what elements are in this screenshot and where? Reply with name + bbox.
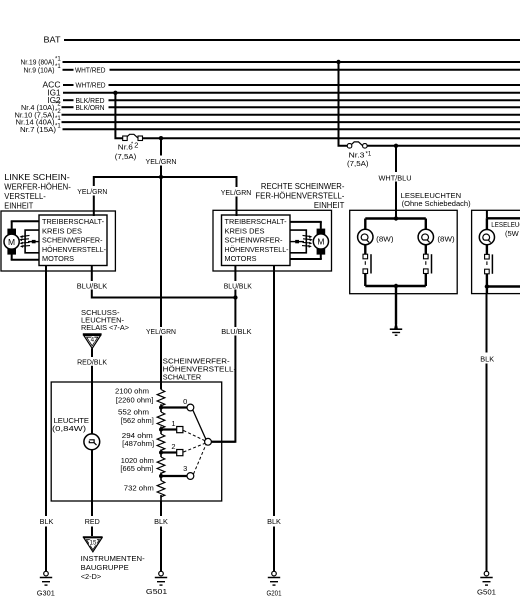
- label WHT/RED on Nr.9: [75, 65, 106, 74]
- svg-text:EINHEIT: EINHEIT: [314, 201, 345, 210]
- wire ACC left stub: [63, 84, 74, 86]
- label SCHLUSS-LEUCHTEN-RELAIS: [81, 308, 130, 332]
- label LESELEUCHTEN: [401, 191, 471, 208]
- driver link bracket right: [290, 230, 313, 253]
- wire bulb L2 to switch S2: [425, 245, 427, 255]
- svg-text:BLU/BLK: BLU/BLK: [77, 282, 108, 291]
- junction dot tap2: [159, 451, 163, 455]
- box right unit outer: [213, 210, 332, 271]
- label WHT/BLU: [379, 173, 412, 182]
- svg-text:YEL/GRN: YEL/GRN: [146, 157, 177, 166]
- svg-text:BLK: BLK: [40, 519, 54, 526]
- ground leseleuchten: [390, 325, 402, 336]
- wire bottom bus right box: [487, 285, 520, 287]
- switch common contact: [205, 438, 212, 445]
- label YEL/GRN left: [77, 187, 107, 196]
- wire BLK to G501: [160, 501, 162, 516]
- svg-text:G501: G501: [146, 587, 167, 596]
- fuse Nr.3: [347, 142, 367, 148]
- svg-text:SCHEINWRFER-: SCHEINWRFER-: [225, 236, 283, 245]
- wire right unit BLU/BLK lower to switch common: [212, 336, 235, 442]
- junction dot fuse6 output / YEL-GRN drop: [159, 136, 163, 140]
- wire drop to bulb L1: [364, 219, 366, 230]
- wire right unit BLK output: [273, 266, 275, 517]
- wire RED out of switch box: [91, 501, 93, 516]
- wire Nr.7 bus: [63, 128, 520, 130]
- svg-text:BAT: BAT: [44, 36, 61, 45]
- label (8W) L2: [437, 234, 455, 243]
- node Nr.19 (80A) fuse feed: [21, 57, 62, 67]
- resistor R4 1020ohm: [157, 457, 165, 475]
- label BLK G501 wire: [154, 519, 168, 526]
- wire left unit BLU/BLK output upper: [91, 266, 93, 282]
- wire YEL/GRN right branch lower: [236, 197, 238, 217]
- wire drop from Nr.19 bus to fuse Nr.3: [339, 62, 348, 146]
- svg-text:INSTRUMENTEN-: INSTRUMENTEN-: [81, 554, 146, 563]
- junction dot YEL/GRN tee: [159, 175, 163, 179]
- svg-text:FER-HÖHENVERSTELL-: FER-HÖHENVERSTELL-: [255, 192, 344, 201]
- wire Nr.14 bus: [62, 121, 520, 123]
- wire top bus right box: [487, 217, 520, 219]
- lamp L1 8W: [358, 229, 373, 244]
- svg-text:WHT/RED: WHT/RED: [75, 65, 106, 74]
- svg-text:BAUGRUPPE: BAUGRUPPE: [81, 563, 129, 572]
- switch position 1 contact: [161, 419, 183, 433]
- svg-text:*1: *1: [366, 151, 372, 157]
- wire YEL/GRN distribution horizontal: [94, 176, 237, 178]
- svg-text:MOTORS: MOTORS: [225, 254, 257, 263]
- label R4 values: [120, 456, 153, 473]
- wire IG2 bus: [109, 99, 520, 101]
- wire left unit BLK output: [45, 266, 47, 517]
- wire BLK right lower: [486, 364, 488, 572]
- switch position 3 contact: [161, 464, 194, 479]
- node Nr.14 (40A): [16, 116, 62, 127]
- ground G301: [37, 571, 55, 597]
- node Nr.4 (10A): [21, 102, 61, 112]
- label BLU/BLK right: [224, 281, 252, 290]
- label BLU/BLK lower: [221, 327, 251, 336]
- svg-text:BLU/BLK: BLU/BLK: [224, 281, 252, 290]
- junction dot WHT/BLU drop: [394, 144, 398, 148]
- resistor R5 732ohm: [157, 481, 165, 499]
- svg-text:BLK/ORN: BLK/ORN: [76, 103, 105, 112]
- junction dot feed: [394, 216, 398, 220]
- svg-text:RED: RED: [85, 519, 100, 526]
- svg-text:2: 2: [171, 442, 175, 451]
- label fuse Nr.6: [115, 141, 139, 161]
- wire R3-R4 link + tap2: [160, 450, 162, 458]
- label driver circuit left: [42, 217, 106, 263]
- label BLK/ORN on Nr.4: [76, 103, 105, 112]
- label LEUCHTE (0,84W): [52, 416, 89, 433]
- wire switch S2 to bottom bus: [425, 274, 427, 287]
- ground G501 right: [477, 571, 496, 596]
- box right unit driver circuit: [222, 215, 291, 266]
- wire common output: [211, 441, 235, 443]
- svg-text:BLK: BLK: [267, 519, 281, 526]
- svg-text:YEL/GRN: YEL/GRN: [146, 327, 176, 336]
- svg-text:TREIBERSCHALT-: TREIBERSCHALT-: [42, 217, 104, 226]
- wire left unit BLU/BLK elbow: [92, 290, 236, 298]
- wire drop to bulb L2: [425, 219, 427, 230]
- junction dot on Nr.19 bus: [336, 60, 340, 64]
- node Nr.9 (10A) fuse feed: [24, 64, 62, 75]
- svg-text:15: 15: [90, 539, 97, 546]
- lamp L2 8W: [418, 229, 433, 244]
- svg-text:SCHALTER: SCHALTER: [163, 373, 202, 382]
- box left unit outer: [1, 211, 115, 271]
- junction dot bottom bus: [394, 284, 398, 288]
- svg-text:LESELEUCHTE: LESELEUCHTE: [491, 220, 520, 229]
- switch wiper dashed to 3: [194, 445, 207, 475]
- svg-text:RECHTE SCHEINWER-: RECHTE SCHEINWER-: [261, 182, 345, 191]
- svg-text:WERFER-HÖHEN-: WERFER-HÖHEN-: [4, 182, 71, 191]
- wire YEL/GRN main vertical long (to switch): [160, 177, 162, 327]
- wire Nr.4 left stub: [62, 106, 74, 108]
- box left unit driver circuit U-left: [39, 215, 107, 266]
- svg-text:BLK: BLK: [480, 357, 494, 364]
- wire ACC bus: [109, 84, 520, 86]
- svg-text:BLU/BLK: BLU/BLK: [221, 327, 251, 336]
- node IG2: [48, 96, 62, 105]
- svg-text:MOTORS: MOTORS: [42, 254, 74, 263]
- svg-text:M: M: [8, 237, 15, 247]
- svg-text:(5W: (5W: [505, 229, 520, 238]
- wire RED/BLK upper: [91, 348, 93, 357]
- motor M2 right: [290, 222, 329, 259]
- resistor R3 294ohm: [157, 434, 165, 452]
- node ACC: [43, 81, 61, 90]
- switch S2: [424, 254, 432, 273]
- lamp L3 5W: [479, 230, 494, 245]
- wire WHT/BLU drop lower: [395, 182, 397, 219]
- label SCHEINWERFER-HOEHENVERSTELL-SCHALTER: [163, 357, 237, 382]
- wire R1-R2 link + tap0: [160, 404, 162, 412]
- label (8W) L1: [376, 234, 394, 243]
- ground G501: [146, 571, 167, 596]
- wire BLK right upper: [486, 294, 488, 353]
- wire switch S3 down: [486, 274, 488, 294]
- switch position 2 contact: [161, 442, 183, 456]
- svg-text:[562 ohm]: [562 ohm]: [121, 416, 154, 425]
- switch wiper solid (pos 0): [193, 410, 206, 440]
- wire Nr.19 bus: [63, 61, 520, 63]
- wire bulb L1 to switch S1: [364, 245, 366, 255]
- junction dot tap0: [159, 406, 163, 410]
- svg-text:G201: G201: [267, 588, 282, 597]
- svg-text:BLK: BLK: [154, 519, 168, 526]
- connector triangle 15 (to instrument cluster): [83, 537, 103, 552]
- label fuse Nr.3: [347, 151, 372, 169]
- label BLK right: [480, 357, 494, 364]
- driver link bracket left: [19, 230, 39, 253]
- node Nr.10 (7,5A): [15, 109, 62, 119]
- label R3 values: [122, 431, 154, 448]
- label WHT/RED on ACC: [76, 81, 106, 90]
- wire R4-R5 link + tap3: [160, 473, 162, 481]
- svg-text:LINKE SCHEIN-: LINKE SCHEIN-: [4, 173, 70, 182]
- fuse Nr.6: [123, 134, 143, 140]
- wire to internal ground: [395, 286, 397, 325]
- svg-text:EINHEIT: EINHEIT: [4, 201, 33, 210]
- svg-text:1: 1: [171, 419, 175, 428]
- junction dot BLU/BLK merge: [233, 295, 237, 299]
- resistor chain bottom lead: [160, 495, 162, 501]
- svg-text:YEL/GRN: YEL/GRN: [221, 188, 252, 197]
- svg-text:RELAIS <7-A>: RELAIS <7-A>: [81, 323, 130, 332]
- label BLK G201 wire: [267, 519, 281, 526]
- svg-text:(8W): (8W): [437, 234, 455, 243]
- svg-text:*1: *1: [55, 123, 61, 129]
- wire bulb L3 to switch S3: [486, 245, 488, 255]
- svg-text:VERSTELL-: VERSTELL-: [4, 192, 46, 201]
- switch position 0 contact: [161, 397, 194, 411]
- svg-text:(Ohne Schiebedach): (Ohne Schiebedach): [402, 199, 471, 208]
- wire WHT/BLU drop upper: [395, 146, 397, 172]
- label BLK G301 wire: [40, 519, 54, 526]
- svg-text:(8W): (8W): [376, 234, 394, 243]
- wire feed bus top: [365, 217, 426, 219]
- svg-text:2: 2: [134, 141, 138, 150]
- box headlight level switch: [51, 382, 222, 501]
- svg-text:TREIBERSCHALT-: TREIBERSCHALT-: [225, 217, 287, 226]
- svg-text:YEL/GRN: YEL/GRN: [77, 187, 107, 196]
- label BLK/RED on IG2: [76, 96, 106, 105]
- svg-text:[2260 ohm]: [2260 ohm]: [116, 395, 154, 404]
- svg-text:(0,84W): (0,84W): [52, 424, 87, 433]
- connector triangle 4 (from tail light relay): [83, 334, 102, 348]
- svg-text:KREIS DES: KREIS DES: [42, 226, 82, 235]
- lamp LEUCHTE bulb: [84, 434, 100, 450]
- wire Nr.10 bus: [62, 114, 520, 116]
- svg-text:G301: G301: [37, 589, 55, 598]
- svg-text:[665 ohm]: [665 ohm]: [120, 464, 153, 473]
- label INSTRUMENTEN-BAUGRUPPE: [81, 554, 146, 581]
- switch wiper dashed to 2: [184, 444, 205, 453]
- label YEL/GRN upper: [146, 157, 177, 166]
- wire stub top right box: [486, 210, 488, 218]
- svg-text:(7,5A): (7,5A): [115, 152, 137, 161]
- svg-text:HÖHENVERSTELL-: HÖHENVERSTELL-: [225, 245, 289, 254]
- svg-text:SCHEINWERFER-: SCHEINWERFER-: [42, 236, 103, 245]
- svg-text:*1: *1: [55, 64, 61, 70]
- wire BLK to G301: [45, 527, 47, 572]
- svg-text:M: M: [317, 237, 324, 247]
- svg-text:*1: *1: [55, 116, 61, 122]
- wire IG2 left stub: [63, 99, 74, 101]
- switch S1: [363, 254, 371, 273]
- label LESELEUCHTE right: [491, 220, 520, 238]
- wire R2-R3 link + tap1: [160, 427, 162, 435]
- wire YEL/GRN right branch upper: [236, 176, 238, 187]
- svg-text:WHT/RED: WHT/RED: [76, 81, 106, 90]
- wire right unit BLU/BLK middle: [234, 290, 236, 328]
- resistor chain top lead: [160, 382, 162, 390]
- wire right unit BLU/BLK upper: [234, 266, 236, 282]
- svg-text:4: 4: [91, 337, 95, 344]
- resistor R2 552ohm: [157, 412, 165, 430]
- label LINKE SCHEINWERFER-HOEHENVERSTELL-EINHEIT: [4, 173, 71, 211]
- label BLU/BLK left: [77, 282, 108, 291]
- wire Nr.9 bus left stub: [63, 69, 74, 71]
- wire Nr.9 bus: [110, 69, 520, 71]
- svg-text:0: 0: [183, 397, 187, 406]
- junction dot on IG1: [113, 91, 117, 95]
- wire fuse Nr.3 output bus: [367, 145, 520, 147]
- label RED/BLK: [77, 357, 107, 366]
- svg-text:Nr.9 (10A): Nr.9 (10A): [24, 66, 55, 75]
- svg-text:732 ohm: 732 ohm: [124, 484, 154, 493]
- wire YEL/GRN left branch upper: [93, 176, 95, 186]
- junction dot tap1: [159, 428, 163, 432]
- wire switch S1 to bottom bus: [364, 274, 366, 287]
- label RECHTE SCHEINWERFER-HOEHENVERSTELL-EINHEIT: [255, 182, 344, 210]
- label R2 values: [118, 408, 154, 426]
- box leseleuchte right: [472, 210, 520, 293]
- junction dot tap3: [159, 474, 163, 478]
- svg-text:HÖHENVERSTELL-: HÖHENVERSTELL-: [42, 245, 106, 254]
- wire YEL/GRN left branch lower: [93, 196, 95, 217]
- svg-text:[487ohm]: [487ohm]: [122, 439, 154, 448]
- label driver circuit right: [225, 217, 289, 263]
- wire drop to bulb L3: [486, 218, 488, 229]
- switch S3: [485, 254, 493, 273]
- wire fuse Nr.6 output bus: [143, 137, 520, 139]
- svg-text:RED/BLK: RED/BLK: [77, 357, 107, 366]
- wire bottom bus: [365, 285, 426, 287]
- wire BAT bus: [64, 39, 520, 41]
- wire Nr.4 bus: [109, 106, 520, 108]
- motor M1 left: [4, 221, 39, 259]
- wire IG1 bus: [63, 92, 520, 94]
- wire RED to connector 15: [91, 527, 93, 537]
- node BAT: [44, 36, 61, 45]
- svg-text:*1: *1: [55, 57, 61, 63]
- label RED: [85, 519, 100, 526]
- label YEL/GRN right: [221, 188, 252, 197]
- resistor R1 2100ohm: [157, 390, 165, 408]
- node IG1: [48, 88, 62, 97]
- wire YEL/GRN main vertical into switch box: [160, 336, 162, 390]
- svg-text:<2-D>: <2-D>: [81, 572, 102, 581]
- svg-text:*2: *2: [55, 109, 61, 115]
- label YEL/GRN at switch: [146, 327, 176, 336]
- svg-text:(7,5A): (7,5A): [347, 159, 369, 168]
- wire YEL/GRN main vertical upper: [160, 138, 162, 155]
- wire RED/BLK lower into switch box: [91, 366, 93, 435]
- label R1 values: [115, 386, 153, 404]
- svg-text:Nr.7 (15A): Nr.7 (15A): [20, 125, 57, 134]
- wire drop from IG1 to fuse Nr.6: [115, 93, 122, 138]
- switch wiper dashed to 1: [184, 431, 205, 441]
- box leseleuchten: [350, 210, 458, 293]
- wire BLK to G201: [273, 527, 275, 572]
- svg-text:WHT/BLU: WHT/BLU: [379, 173, 412, 182]
- svg-text:G501: G501: [477, 588, 496, 597]
- svg-text:KREIS DES: KREIS DES: [225, 226, 265, 235]
- junction dot right box: [485, 284, 489, 288]
- wire YEL/GRN main vertical to T: [160, 166, 162, 178]
- label R5 value: [124, 484, 154, 493]
- wire LEUCHTE to box bottom: [91, 450, 93, 501]
- svg-text:2100 ohm: 2100 ohm: [115, 386, 149, 395]
- node Nr.7 (15A): [20, 123, 61, 134]
- ground G201: [267, 571, 282, 597]
- svg-text:*2: *2: [55, 102, 61, 108]
- svg-text:3: 3: [183, 464, 187, 473]
